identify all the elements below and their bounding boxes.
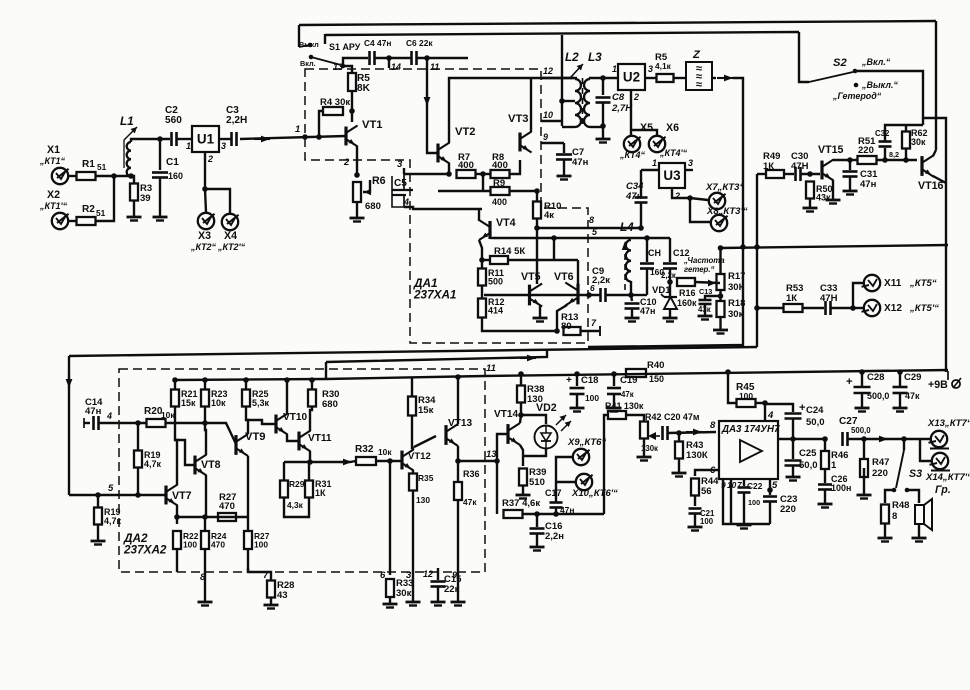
wire U3 pin3 stub (685, 169, 693, 171)
wire C12 top (669, 238, 671, 262)
wire S1 upper contact lead (324, 34, 326, 44)
svg-text:100: 100 (700, 517, 714, 526)
svg-text:3: 3 (221, 141, 226, 151)
node pin4 (762, 400, 768, 406)
wire pin5 C23 (769, 479, 771, 495)
connector X2 (52, 213, 68, 229)
svg-text:8,2: 8,2 (889, 150, 899, 159)
wire R19b stub (97, 495, 99, 507)
wire VT12 collector (412, 448, 414, 450)
node pin1 dashed crossing (302, 134, 308, 140)
node C31 top (847, 157, 853, 163)
svg-text:„КТ2“: „КТ2“ (190, 242, 217, 252)
wire C7 stub (563, 143, 565, 153)
resistor R48 (881, 505, 889, 524)
node R16 left (667, 279, 673, 285)
svg-text:47к: 47к (905, 391, 920, 401)
svg-text:2,2Н: 2,2Н (226, 115, 247, 126)
svg-text:VT7: VT7 (172, 490, 192, 502)
svg-text:U3: U3 (663, 168, 680, 183)
wire arrowed line y360 (326, 349, 547, 362)
capacitor C20 (661, 426, 664, 440)
wire R10 bottom pin8 row (537, 218, 641, 228)
node rail VT13 (455, 374, 461, 380)
wire node13 to C4 row (343, 58, 368, 66)
wire R19b gnd (97, 525, 99, 540)
filter Z (686, 62, 712, 90)
svg-text:VT15: VT15 (818, 144, 843, 156)
svg-text:X4: X4 (224, 230, 237, 242)
wire VT2 emitter down (448, 163, 450, 174)
svg-text:C8: C8 (612, 92, 625, 103)
wire C1 stub (159, 139, 161, 170)
wire VT6 emitter (557, 305, 567, 331)
wire R7 to R8 (476, 173, 490, 175)
connector X4 (222, 214, 238, 230)
wire R2 up to node (96, 176, 114, 221)
arrow R6 wiper (364, 189, 371, 195)
ground VT15 emitter (826, 199, 841, 202)
svg-text:R32: R32 (355, 444, 374, 455)
wire S2 out (855, 71, 946, 372)
wire to R51 (850, 159, 858, 161)
node VD2 (518, 412, 524, 418)
svg-text:50,0: 50,0 (806, 417, 825, 428)
svg-text:160: 160 (168, 171, 183, 181)
wire pin 14 stub (388, 58, 390, 68)
wire R50 gnd (809, 199, 811, 207)
wire VT9 emitter (247, 456, 249, 517)
svg-text:560: 560 (165, 115, 182, 126)
svg-text:500,0: 500,0 (851, 426, 871, 435)
wire R29 to out row (284, 461, 310, 463)
resistor R42 (640, 422, 648, 439)
svg-text:C6 22к: C6 22к (406, 38, 433, 48)
wire C16 stub (536, 514, 538, 527)
node R13 left (554, 328, 560, 334)
resistor R27b (244, 531, 252, 549)
wire pin4 up (764, 403, 766, 421)
node X7 X8 (687, 195, 693, 201)
transistor VT4 (488, 221, 491, 239)
svg-text:47Н: 47Н (820, 293, 838, 304)
wire C28 gnd (861, 393, 863, 407)
node rail R21 (172, 377, 178, 383)
wire R29 R31 bottoms (284, 498, 309, 517)
arrow into R32 (339, 461, 352, 463)
ground under C26 (818, 503, 833, 506)
wire C19 gnd (613, 394, 615, 407)
wire R38 stub (520, 374, 522, 386)
connector X1 (52, 168, 68, 184)
transistor VT5 (528, 285, 531, 306)
wire R51 to VT16 base (877, 159, 917, 161)
svg-text:Гр.: Гр. (935, 484, 951, 496)
resistor R25 (242, 390, 250, 407)
svg-text:220: 220 (858, 145, 874, 156)
wire C18 stub (576, 374, 578, 386)
capacitor C13 (699, 299, 712, 302)
svg-text:VD1: VD1 (652, 285, 671, 296)
resistor R62 (902, 132, 910, 149)
node rail C18 (574, 371, 580, 377)
ground pin 8 (198, 601, 213, 604)
node R9 R10 (534, 188, 540, 194)
ground under R19b (91, 540, 106, 543)
wire DA3 out (778, 438, 825, 440)
connector X13 (931, 431, 947, 447)
node out VT11 (307, 459, 313, 465)
node V1 y308 (754, 305, 760, 311)
resistor R9 (491, 187, 510, 195)
resistor R53 (784, 304, 803, 312)
tuning arrow L2 (570, 64, 583, 78)
svg-text:X8„КТ3'“: X8„КТ3'“ (706, 206, 748, 217)
svg-text:„КТ5“: „КТ5“ (909, 278, 937, 289)
connector X3 (198, 213, 214, 229)
svg-text:U1: U1 (197, 131, 215, 146)
wire VT15 emitter (832, 180, 834, 199)
wire C17 bottom stub (555, 508, 557, 514)
resistor R30 (308, 390, 316, 407)
wire R38 to VD2 node (520, 403, 522, 415)
svg-text:VT1: VT1 (362, 119, 383, 131)
wire VT6 top feed (577, 260, 579, 284)
svg-text:R9: R9 (493, 178, 505, 189)
capacitor C8 (596, 96, 611, 99)
wire C25 down (792, 466, 794, 476)
wire S2 to C32 rail (922, 118, 924, 125)
wire long line y353 (69, 347, 757, 356)
svg-text:C20 47м: C20 47м (664, 412, 700, 422)
svg-text:8: 8 (892, 511, 897, 522)
svg-text:130: 130 (416, 495, 430, 505)
switch S2 (809, 72, 853, 82)
node C16 (534, 511, 540, 517)
resistor R19b (94, 508, 102, 525)
wire pin5 row (494, 237, 600, 239)
wire R32 out (376, 460, 402, 462)
wire C23 down (769, 502, 771, 524)
node rail C29 (897, 369, 903, 375)
resistor R11 (478, 269, 486, 286)
svg-text:„КТ4“: „КТ4“ (619, 150, 646, 160)
svg-text:X1: X1 (47, 144, 60, 156)
svg-text:R47: R47 (872, 457, 889, 468)
capacitor C5 (392, 189, 413, 191)
node C17 row (553, 511, 559, 517)
node R20 VT8 (202, 420, 208, 426)
wire second top line (325, 32, 799, 35)
wire C24 to output (792, 419, 794, 439)
switch S1 (311, 57, 341, 65)
resistor R28 (267, 581, 275, 598)
svg-text:„КТ4'“: „КТ4'“ (659, 148, 688, 158)
wire R6 wiper (363, 180, 370, 192)
svg-text:237ХА1: 237ХА1 (413, 289, 456, 302)
capacitor C27 (841, 432, 844, 446)
wire C33 out (831, 307, 853, 309)
wire VT14 base node13 (497, 434, 508, 461)
wire R31 top (308, 462, 310, 481)
svg-text:1К: 1К (315, 488, 326, 498)
wire X5 drop (630, 130, 632, 135)
resistor R2 (77, 217, 96, 225)
svg-text:4,7к: 4,7к (144, 459, 161, 469)
wire pin13 to R5 (343, 66, 352, 72)
node R46 top (822, 436, 828, 442)
ground under R28 (264, 604, 279, 607)
svg-text:150: 150 (649, 374, 664, 384)
svg-text:510: 510 (529, 477, 545, 488)
wire node13 down (496, 461, 498, 514)
wire X10 branch (556, 481, 575, 483)
wire VT1 emitter down pin2 (356, 146, 358, 175)
transistor VT9 (234, 435, 237, 455)
wire inner box bottom (588, 247, 743, 347)
wire pin5 to L4 top rail (600, 237, 670, 239)
svg-text:Вкл.: Вкл. (300, 59, 316, 68)
svg-text:„КТ2'“: „КТ2'“ (217, 242, 246, 252)
node R19a bottom (135, 492, 141, 498)
wire X6 branch (631, 130, 657, 135)
svg-text:1: 1 (295, 124, 300, 135)
wire C4 to C6 (375, 57, 411, 59)
wire R11 chain top (481, 260, 483, 268)
capacitor C11 (640, 262, 654, 265)
svg-text:3: 3 (648, 64, 653, 74)
svg-text:X11: X11 (884, 278, 902, 289)
wire VT8 collector (205, 407, 206, 455)
transistor VT14 (506, 424, 509, 444)
wire R37 out (523, 513, 604, 515)
wire X11 branch (853, 283, 863, 308)
svg-text:+: + (799, 402, 806, 414)
svg-text:680: 680 (365, 201, 381, 212)
connector X7 (709, 193, 725, 209)
wire VT4 collector (478, 209, 480, 221)
node rail R25 (243, 377, 249, 383)
wire DA2 top rail (175, 379, 326, 380)
node R17 top (718, 245, 724, 251)
svg-text:100: 100 (748, 498, 760, 507)
wire X8 branch (690, 198, 710, 222)
wire C8 gnd stub (602, 126, 604, 138)
arrow on pin11 wire (426, 92, 428, 106)
ground under R6 (350, 217, 365, 220)
svg-text:4,1к: 4,1к (655, 61, 672, 71)
svg-text:R40: R40 (647, 360, 664, 371)
wire VT8 emitter (205, 475, 207, 517)
wire supply rail (485, 370, 948, 376)
wire pin4 to C24 (765, 404, 793, 412)
svg-text:100: 100 (585, 393, 599, 403)
ground under C28 (855, 407, 870, 410)
capacitor C10 (625, 302, 640, 305)
tuning arrow L1 (123, 140, 125, 168)
wire y360 to rail (325, 362, 327, 379)
svg-text:6: 6 (590, 283, 595, 293)
wire C32 bottom stub (884, 148, 886, 160)
ground under C15 (431, 601, 446, 604)
svg-text:100: 100 (739, 391, 753, 401)
node pin3 row (446, 171, 452, 177)
node X11 X12 (850, 305, 856, 311)
capacitor C22 (738, 486, 751, 489)
svg-text:237ХА2: 237ХА2 (123, 544, 167, 557)
ground under R18 (713, 329, 728, 332)
node V1 y247 (754, 244, 760, 250)
IC DA2 dashed outline (119, 369, 485, 572)
X14 jack bar (931, 470, 950, 472)
wire pin3 stub (403, 168, 405, 174)
wire C25 stub (792, 439, 794, 459)
svg-text:5: 5 (772, 480, 778, 491)
wire pin7 C22 (743, 479, 745, 486)
speaker Гр (915, 505, 924, 524)
wire pin5 drop (553, 238, 555, 260)
svg-text:2: 2 (207, 154, 213, 164)
svg-text:400: 400 (492, 160, 508, 171)
wire U2 to R5b (645, 77, 657, 79)
wire C5 pin4 row (404, 207, 482, 209)
svg-text:47н: 47н (85, 406, 102, 417)
wire R34 top (411, 377, 413, 397)
wire R49 to C30 (784, 173, 794, 175)
VD2 light arrows (556, 415, 566, 425)
wire VT7 collector (175, 407, 177, 485)
svg-text:2,2н: 2,2н (545, 531, 564, 542)
ground pin 3 (406, 601, 421, 604)
wire VT10 emitter (287, 434, 299, 441)
node R10 bottom (534, 225, 540, 231)
wire node to L1 (114, 175, 131, 177)
resistor R6 (353, 182, 361, 202)
node R5/R4/VT1 collector (349, 108, 355, 114)
svg-text:+: + (846, 376, 853, 388)
wire VT13 collector (457, 377, 459, 424)
svg-text:VT4: VT4 (496, 217, 516, 229)
ground under C7 (557, 175, 572, 178)
wire C14 lead (84, 422, 90, 424)
svg-text:S2: S2 (833, 57, 847, 69)
svg-text:VT8: VT8 (201, 459, 221, 471)
svg-text:„КТ1'“: „КТ1'“ (39, 201, 68, 211)
ground under C13 (698, 315, 713, 318)
svg-text:C24: C24 (806, 405, 824, 416)
svg-text:47к: 47к (463, 497, 477, 507)
wire DA3 ground bus (723, 479, 770, 524)
node R14 left (479, 257, 485, 263)
capacitor C30 (794, 167, 797, 181)
resistor R27a (218, 513, 236, 521)
wire VD1 top (669, 282, 671, 296)
svg-text:6: 6 (380, 570, 386, 581)
svg-text:VT14: VT14 (494, 409, 518, 420)
wire R13 to pin7 (581, 330, 599, 332)
svg-text:2,2к: 2,2к (661, 271, 676, 280)
wire R43 stub (678, 433, 680, 441)
resistor R45 (737, 399, 756, 407)
resistor R41 (608, 411, 626, 419)
capacitor C1 (152, 171, 168, 174)
connector X5 (624, 136, 640, 152)
wire L1 to C2 row (131, 139, 170, 142)
ground under C1 (153, 216, 168, 219)
resistor R34 (408, 397, 416, 416)
svg-text:VT3: VT3 (508, 113, 529, 125)
resistor R50 (806, 182, 814, 199)
capacitor C4 (368, 51, 371, 65)
node 13 row (455, 458, 461, 464)
node rail C28 (859, 369, 865, 375)
capacitor C17 (550, 501, 563, 504)
ground under C21 (688, 526, 703, 529)
transistor VT10 (274, 415, 277, 434)
inductor L1 (127, 142, 131, 176)
svg-text:51: 51 (96, 208, 106, 218)
wire R36 down (457, 500, 459, 568)
resistor R32 (356, 457, 376, 465)
svg-text:3: 3 (688, 158, 693, 168)
svg-text:220: 220 (872, 468, 888, 479)
node R32 R33 (387, 458, 393, 464)
capacitor C29 (893, 386, 908, 389)
wire C32 top (885, 125, 923, 141)
wire VT5 collector up (536, 228, 538, 284)
capacitor C19 (607, 387, 621, 390)
wire pin9 stub (541, 142, 564, 144)
wire R4 to base column (319, 111, 323, 137)
node 5 junction (95, 492, 101, 498)
wire R46 top stub (824, 439, 826, 451)
capacitor C26 (818, 483, 832, 486)
wire R17 R18 (719, 290, 721, 301)
svg-text:2: 2 (674, 191, 680, 201)
wire R24 down (204, 549, 206, 572)
resistor R31 (305, 481, 313, 498)
svg-text:160к: 160к (677, 298, 697, 308)
wire AGC down V1 (756, 174, 758, 347)
node X1 X2 join (111, 173, 117, 179)
svg-text:R36: R36 (463, 469, 479, 479)
wire node13 row (458, 460, 497, 462)
svg-text:VT13: VT13 (448, 418, 472, 429)
svg-text:СН: СН (648, 248, 661, 258)
svg-text:L2: L2 (565, 51, 579, 64)
resistor R7 (457, 170, 476, 178)
wire C11 bottom (646, 269, 648, 295)
connector X11 (864, 275, 880, 291)
resistor R37 (504, 510, 523, 518)
svg-text:R41 130к: R41 130к (605, 401, 644, 411)
svg-text:R42: R42 (645, 412, 661, 422)
svg-text:15к: 15к (418, 405, 434, 416)
svg-text:500: 500 (488, 277, 503, 287)
wire VT15 collector row (833, 159, 852, 161)
arrow R17 wiper (708, 280, 716, 287)
wire top frame upper (299, 21, 936, 25)
svg-text:C4 47н: C4 47н (364, 38, 391, 48)
resistor R16 (677, 278, 695, 286)
wire X4 branch (205, 189, 230, 213)
svg-text:ДА3 174УН7: ДА3 174УН7 (721, 424, 780, 435)
wire pin10 row (541, 120, 562, 122)
svg-text:47н: 47н (560, 505, 574, 515)
svg-text:S3: S3 (909, 468, 922, 480)
resistor R14 (490, 256, 508, 264)
node X3 X4 split (202, 186, 208, 192)
